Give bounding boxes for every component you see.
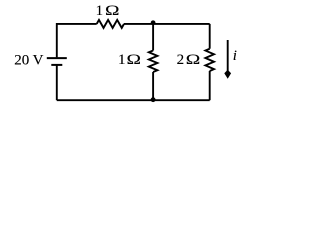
current arrow i (shaft) <box>227 40 229 71</box>
voltage source V1 20V: long (positive) plate <box>47 57 67 59</box>
node A junction dot (top) <box>151 20 156 25</box>
svg-text:i: i <box>233 48 237 64</box>
wire: middle lower segment <box>152 72 154 100</box>
wire: middle upper segment <box>152 24 154 51</box>
wire: right lower segment <box>209 71 211 100</box>
node B junction dot (bottom) <box>151 97 156 102</box>
svg-text:Ω: Ω <box>105 2 120 18</box>
wire: left upper + top-left segment <box>57 24 97 58</box>
resistor R3 2ohm (right vertical zigzag) <box>205 49 214 71</box>
wire: right upper segment <box>209 24 211 49</box>
svg-text:1: 1 <box>96 3 104 19</box>
wire: left lower segment <box>56 65 58 100</box>
svg-text:20 V: 20 V <box>14 52 43 68</box>
resistor R1 1ohm (top horizontal zigzag) <box>97 20 124 28</box>
resistor R2 1ohm (middle vertical zigzag) <box>149 51 158 73</box>
wire: bottom segment <box>57 99 210 101</box>
svg-text:Ω: Ω <box>127 51 142 67</box>
svg-text:2: 2 <box>177 52 185 68</box>
svg-text:1: 1 <box>118 52 126 68</box>
current arrow i (head) <box>224 70 231 79</box>
svg-text:Ω: Ω <box>186 51 201 67</box>
wire: top-right segment through node A <box>124 23 210 25</box>
voltage source V1 20V: short (negative) plate <box>51 64 62 66</box>
